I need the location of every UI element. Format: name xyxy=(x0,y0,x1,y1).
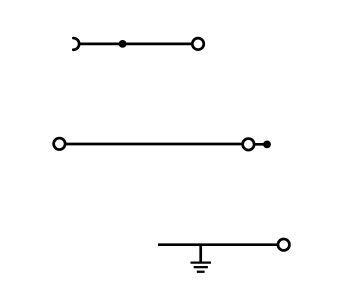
wire top level xyxy=(79,43,191,46)
ground bar short xyxy=(197,271,205,273)
wire middle level xyxy=(59,143,248,146)
ground xyxy=(191,245,212,272)
terminal circle top right xyxy=(192,38,204,50)
terminal circle bottom right xyxy=(278,239,290,251)
junction dot middle right end xyxy=(263,141,271,149)
ground bar middle xyxy=(194,266,208,268)
socket contact (open arc) top level xyxy=(73,38,79,50)
terminal circle middle right xyxy=(243,139,255,151)
ground riser wire xyxy=(199,245,202,263)
terminal circle middle left xyxy=(54,138,66,150)
wire bottom level xyxy=(158,243,284,246)
junction dot on top wire xyxy=(119,40,127,48)
ground bar long xyxy=(191,261,212,263)
wire stub middle right xyxy=(248,143,267,146)
